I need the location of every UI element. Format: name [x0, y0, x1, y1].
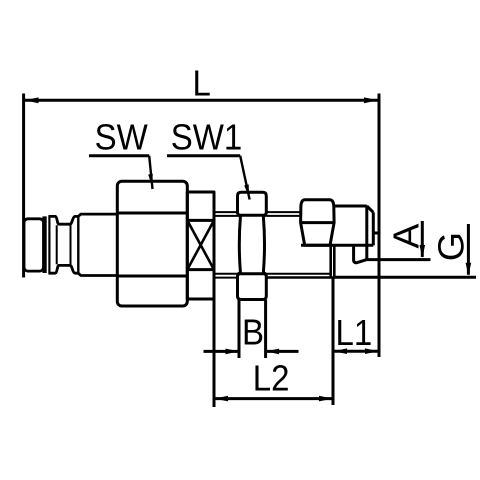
svg-text:L2: L2 [253, 359, 290, 399]
svg-text:L1: L1 [336, 314, 373, 354]
svg-text:L: L [193, 64, 211, 104]
svg-text:B: B [242, 313, 264, 353]
svg-text:A: A [386, 223, 426, 249]
svg-text:G: G [431, 232, 471, 261]
svg-text:SW1: SW1 [171, 118, 242, 158]
svg-text:SW: SW [95, 118, 149, 158]
